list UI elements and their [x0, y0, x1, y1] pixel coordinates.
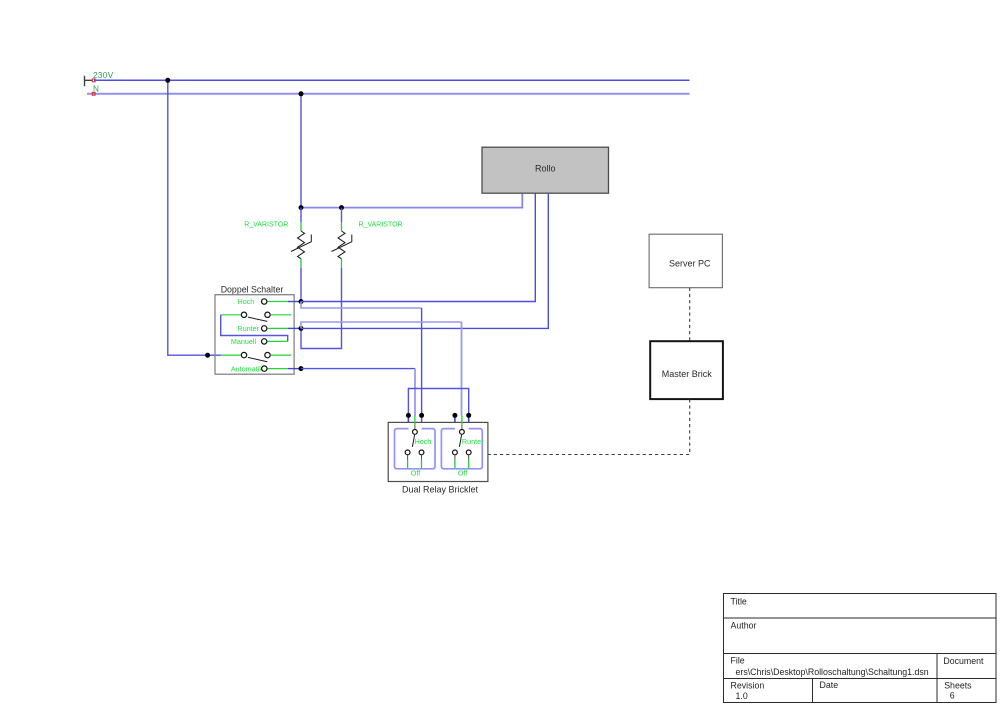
- Rollo box: [482, 147, 609, 193]
- junction dot Automatik node: [299, 366, 304, 371]
- relay K2 contact A: [453, 450, 458, 455]
- switch S1 left contact: [241, 312, 246, 317]
- wire Runter pin to node: [288, 327, 301, 329]
- svg-text:1.0: 1.0: [736, 691, 748, 701]
- relay K1 contact A lead: [407, 455, 409, 460]
- wire Hoch node to Rollo pin2: [301, 193, 535, 301]
- dashed link Server PC to Master Brick: [689, 288, 691, 342]
- wire N rail drop at x=301: [300, 94, 302, 208]
- svg-text:Master Brick: Master Brick: [662, 369, 713, 379]
- wire relay K2 common drop: [461, 322, 463, 416]
- title block texts: [731, 596, 985, 701]
- Dual Relay Bricklet box: [388, 422, 488, 494]
- switch S2 lever: [248, 357, 267, 361]
- wire relay K1 contact stub A: [407, 415, 409, 429]
- wire Runter node to relay K2 common: [301, 322, 462, 328]
- junction dot on 230V rail: [165, 78, 170, 83]
- svg-text:Automatik: Automatik: [231, 365, 263, 374]
- relay K1 lever: [412, 435, 414, 447]
- svg-text:Runter: Runter: [462, 437, 484, 446]
- svg-text:6: 6: [950, 690, 955, 700]
- wire Automatik node to relay K1 common: [301, 368, 415, 370]
- switch S1 right green lead: [271, 314, 292, 316]
- relay K1 outline: [395, 429, 436, 469]
- svg-text:Date: Date: [820, 680, 839, 690]
- svg-text:Runter: Runter: [238, 324, 260, 333]
- svg-text:Hoch: Hoch: [415, 437, 432, 446]
- relay K2 contact B: [466, 450, 471, 455]
- svg-text:R_VARISTOR: R_VARISTOR: [244, 222, 288, 229]
- relay K1 contact B lead: [421, 455, 423, 460]
- relay K1 contact B: [419, 450, 424, 455]
- svg-text:Author: Author: [731, 620, 757, 630]
- switch S2 right green lead: [271, 354, 292, 356]
- relay K1 common contact: [413, 430, 418, 435]
- relay K1 contact A: [405, 450, 410, 455]
- svg-text:Revision: Revision: [731, 681, 765, 691]
- switch S2 right contact: [265, 352, 270, 357]
- switch S1 lever: [248, 317, 267, 321]
- svg-text:Sheets: Sheets: [944, 681, 972, 691]
- svg-text:Title: Title: [731, 596, 747, 606]
- relay K2 common contact: [460, 430, 465, 435]
- pin Automatik circle: [262, 366, 267, 371]
- junction dot varistor2 top: [339, 205, 344, 210]
- wire relay K1 common drop: [414, 369, 416, 416]
- svg-text:Hoch: Hoch: [238, 297, 255, 306]
- wire relay K1 drop: [421, 308, 423, 429]
- wire varistor top rail to Rollo pin1: [301, 193, 522, 207]
- wire Runter node to Rollo pin3: [301, 193, 548, 328]
- svg-text:Dual Relay Bricklet: Dual Relay Bricklet: [402, 484, 479, 494]
- junction dot relay K2 pin B: [466, 413, 471, 418]
- pin Manuell green lead: [267, 340, 287, 342]
- relay K2 contact A lead: [454, 455, 456, 460]
- svg-text:Doppel Schalter: Doppel Schalter: [221, 285, 284, 295]
- port 230V: [85, 71, 114, 86]
- wire relay bridge: [408, 389, 468, 416]
- varistor R_VARISTOR 1: [244, 208, 311, 302]
- wire varistor2 bottom to Runter node: [301, 268, 342, 349]
- junction dot Hoch node: [299, 299, 304, 304]
- Doppel Schalter box: [215, 285, 294, 375]
- switch S2 left green lead: [221, 354, 241, 356]
- junction dot varistor1 top: [299, 205, 304, 210]
- Master Brick box: [650, 341, 723, 399]
- wire Automatik pin to node: [288, 368, 301, 370]
- wire N rail: [87, 93, 690, 95]
- wire Hoch node to relay K1: [301, 302, 422, 309]
- wire switch S1 left to Manuell pin: [221, 315, 288, 342]
- svg-text:Manuell: Manuell: [231, 337, 257, 346]
- title block frame: [724, 593, 996, 702]
- node N red terminal: [92, 92, 95, 95]
- svg-text:Off: Off: [411, 469, 420, 478]
- relay K1 common pin lead: [414, 416, 416, 425]
- wire relay K2 contact stub B: [468, 415, 470, 429]
- svg-text:Rollo: Rollo: [535, 164, 556, 174]
- pin Runter circle: [262, 326, 267, 331]
- pin Hoch circle: [262, 299, 267, 304]
- switch S2 left contact: [241, 352, 246, 357]
- svg-text:Document: Document: [943, 656, 984, 666]
- junction dot relay K1 pin A: [406, 413, 411, 418]
- wire 230V rail: [94, 79, 690, 81]
- svg-text:Off: Off: [458, 469, 467, 478]
- junction dot on N rail: [299, 91, 304, 96]
- svg-text:File: File: [731, 655, 745, 665]
- junction dot Runter node: [299, 326, 304, 331]
- switch S1 left green lead: [221, 314, 241, 316]
- junction dot relay K1 pin B: [419, 413, 424, 418]
- wire left drop from 230V rail: [168, 80, 221, 355]
- pin Runter green lead: [267, 327, 287, 329]
- Server PC box: [649, 234, 722, 288]
- svg-text:ers\Chris\Desktop\Rolloschaltu: ers\Chris\Desktop\Rolloschaltung\Schaltu…: [736, 667, 929, 677]
- pin Manuell circle: [262, 339, 267, 344]
- pin Automatik green lead: [268, 368, 288, 370]
- wire relay K2 contact stub A: [454, 415, 456, 429]
- dashed link Master Brick to Dual Relay Bricklet: [488, 399, 690, 454]
- relay K2 common pin lead: [461, 416, 463, 425]
- relay K2 outline: [441, 429, 482, 469]
- node 230V red terminal: [92, 79, 95, 82]
- svg-text:R_VARISTOR: R_VARISTOR: [359, 222, 403, 229]
- relay K2 contact B lead: [468, 455, 470, 460]
- pin Hoch green lead: [267, 301, 287, 303]
- svg-text:230V: 230V: [93, 71, 114, 80]
- junction dot at switch feed: [205, 353, 210, 358]
- relay K2 lever: [459, 435, 461, 447]
- svg-text:Server PC: Server PC: [669, 258, 711, 268]
- wire Hoch pin to node: [288, 301, 301, 303]
- varistor R_VARISTOR 2: [332, 208, 403, 268]
- switch S1 right contact: [265, 312, 270, 317]
- junction dot relay K2 pin A: [452, 413, 457, 418]
